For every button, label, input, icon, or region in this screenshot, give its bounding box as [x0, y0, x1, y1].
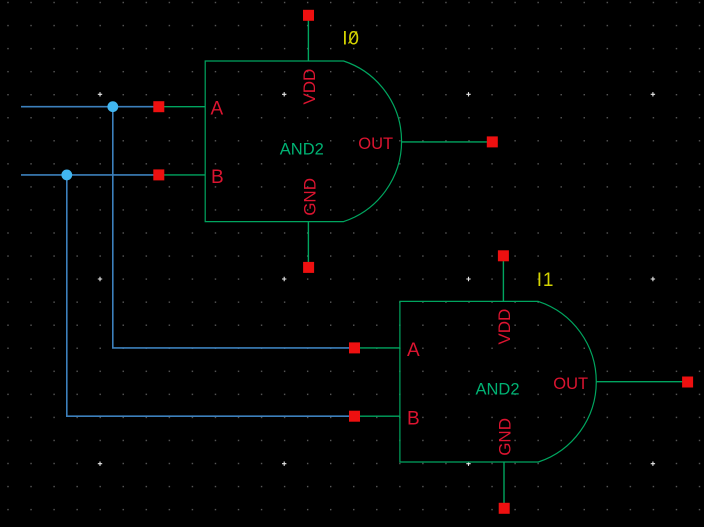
pin GND of I0 (red square) — [303, 262, 314, 273]
pin VDD of I0 (red square) — [303, 10, 314, 21]
svg-text:I0: I0 — [342, 28, 359, 49]
major grid marker (652,279) — [651, 277, 655, 281]
major grid marker (284,463.7) — [282, 462, 286, 466]
svg-text:I1: I1 — [537, 270, 554, 291]
pin B of I1 (red square) — [349, 411, 360, 422]
junction node B — [61, 170, 72, 181]
and-gate U-I0 body — [205, 61, 401, 222]
major grid marker (652,94.5) — [651, 92, 655, 96]
I0 GND stub — [307, 222, 309, 268]
slash of zero in I0 — [349, 32, 358, 44]
svg-text:A: A — [211, 98, 224, 119]
wire net B horizontal — [21, 174, 159, 176]
I1 GND stub — [503, 462, 505, 508]
major grid marker (100,463.7) — [98, 462, 102, 466]
pin GND of I1 (red square) — [499, 503, 510, 514]
wire net OUT of I1 — [596, 381, 688, 383]
pin OUT of I1 (red square) — [682, 377, 693, 388]
svg-text:OUT: OUT — [358, 135, 393, 153]
svg-text:GND: GND — [496, 418, 515, 456]
svg-text:VDD: VDD — [300, 69, 319, 105]
svg-text:B: B — [407, 409, 420, 430]
wire net A vertical to I1 pin A — [113, 107, 355, 348]
pin OUT of I0 (red square) — [487, 136, 498, 147]
I0 pin B stub — [159, 174, 205, 176]
svg-text:A: A — [407, 340, 420, 361]
major grid marker (284,94.5) — [282, 92, 286, 96]
svg-text:AND2: AND2 — [476, 381, 520, 399]
wire net B vertical to I1 pin B — [67, 175, 355, 416]
junction node A — [107, 101, 118, 112]
I1 pin A stub — [355, 347, 400, 349]
and-gate U-I1 body — [400, 301, 596, 462]
svg-text:VDD: VDD — [495, 309, 514, 345]
pin A of I1 (red square) — [349, 342, 360, 353]
svg-text:GND: GND — [301, 178, 320, 216]
I1 pin B stub — [355, 415, 400, 417]
svg-text:AND2: AND2 — [280, 141, 324, 159]
pin B of I0 (red square) — [153, 169, 164, 180]
major grid marker (468,94.5) — [466, 92, 470, 96]
pin VDD of I1 (red square) — [498, 250, 509, 261]
svg-text:OUT: OUT — [553, 375, 588, 393]
major grid marker (100,279) — [98, 277, 102, 281]
I0 VDD stub — [307, 15, 309, 61]
I1 VDD stub — [502, 256, 504, 302]
major grid marker (468,279) — [466, 277, 470, 281]
wire net A horizontal — [21, 106, 159, 108]
pin A of I0 (red square) — [153, 101, 164, 112]
wire net OUT of I0 — [401, 141, 492, 143]
I0 pin A stub — [159, 106, 205, 108]
svg-text:B: B — [211, 167, 224, 188]
major grid marker (652,463.7) — [651, 462, 655, 466]
major grid marker (284,279) — [282, 277, 286, 281]
major grid marker (468,463.7) — [466, 462, 470, 466]
major grid marker (100,94.5) — [98, 92, 102, 96]
